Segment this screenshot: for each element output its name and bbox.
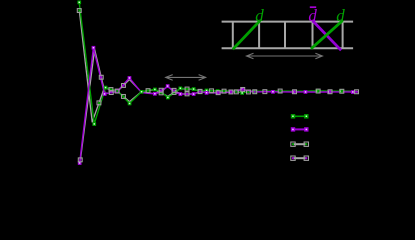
wire: gray curve 2 (fit through magenta data) [80,49,358,160]
node: green filled-square markers [77,1,342,126]
node: gray2 open-square markers with magenta dots [78,75,358,161]
svg-text:d: d [255,6,264,25]
label dbar (magenta, X cell) [308,6,317,25]
node: gray1 open-square markers with green dots [77,9,344,105]
legend entry 3: gray series with green dots [291,142,309,146]
ladder: magenta diagonal coupling dbar (X cell) [313,21,342,51]
ladder: green diagonal coupling d (X cell) [311,21,343,49]
arrow: in-plot correlation-distance double arrow [166,75,206,81]
wire: green correlation curve [79,2,358,124]
ladder: green diagonal coupling d (left cell) [233,21,260,50]
legend entry 4: gray series with magenta dots [291,156,309,160]
wire: magenta correlation curve [80,48,358,163]
ladder inset: top and bottom rails [222,22,354,49]
wire: gray curve 1 (fit through green data) [79,11,358,123]
legend entry 1: green series [291,114,309,118]
arrow: ladder distance double arrow [247,53,323,59]
node: magenta filled-square markers [78,46,355,165]
svg-text:d: d [308,6,317,25]
svg-text:d: d [336,6,345,25]
ladder inset: rungs [233,22,343,49]
legend entry 2: magenta series [291,127,309,131]
